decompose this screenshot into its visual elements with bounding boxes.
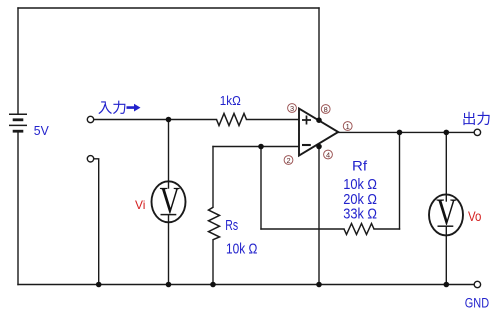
svg-text:1: 1 bbox=[346, 122, 350, 131]
pin label 2 bbox=[284, 156, 293, 165]
pin label 1 bbox=[343, 122, 352, 131]
wire top rail bbox=[18, 7, 319, 9]
terminal input 2 bbox=[87, 156, 93, 162]
wire feedback up to output bbox=[399, 132, 401, 229]
junction dot minus feedback node bbox=[258, 144, 264, 150]
junction dot pin 4 bbox=[316, 144, 322, 150]
pin label 3 bbox=[288, 104, 297, 113]
voltmeter Vo circle bbox=[429, 194, 463, 235]
wire minus node down to Rs bbox=[212, 147, 214, 208]
svg-text:3: 3 bbox=[290, 104, 294, 113]
svg-text:8: 8 bbox=[324, 105, 328, 114]
junction dot rail input2 bbox=[96, 282, 102, 288]
wire battery bottom lead bbox=[17, 132, 19, 285]
svg-text:2: 2 bbox=[286, 156, 290, 165]
pin label 8 bbox=[321, 105, 330, 114]
junction dot output-Vo bbox=[444, 130, 450, 136]
voltmeter Vo V glyph bbox=[437, 199, 457, 225]
junction dot output-Rf bbox=[397, 130, 403, 136]
junction dot rail Rs bbox=[210, 282, 216, 288]
svg-text:Vo: Vo bbox=[468, 209, 481, 224]
battery V1 5V plates bbox=[9, 114, 27, 131]
wire Vo branch upper bbox=[445, 132, 447, 201]
junction dot rail pin4 bbox=[316, 282, 322, 288]
wire 1k resistor to op-amp plus input bbox=[247, 119, 299, 121]
op-amp plus input symbol bbox=[302, 116, 311, 125]
wire Rf to right corner bbox=[374, 228, 400, 230]
wire output bbox=[339, 131, 475, 133]
wire feedback node down bbox=[260, 147, 262, 230]
wire input2 stub bbox=[94, 159, 99, 285]
svg-text:GND: GND bbox=[465, 295, 490, 310]
wire positive supply to pin 8 bbox=[318, 8, 320, 120]
wire pin 4 to ground rail bbox=[318, 147, 320, 285]
wire Vi branch lower bbox=[168, 215, 170, 284]
terminal output bbox=[474, 129, 480, 135]
label input arrow bbox=[127, 104, 141, 112]
wire battery top lead bbox=[17, 8, 19, 114]
wire feedback horizontal to Rf bbox=[261, 228, 344, 230]
voltmeter Vi underline bbox=[161, 214, 177, 216]
junction dot rail Vo bbox=[444, 282, 450, 288]
wire minus input horizontal bbox=[213, 146, 299, 148]
junction dot pin 8 bbox=[316, 117, 322, 123]
label shutsuryoku (output) kanji bbox=[463, 112, 489, 125]
junction dot plus input node bbox=[166, 117, 172, 123]
op-amp minus input symbol bbox=[302, 144, 311, 146]
svg-text:Rf: Rf bbox=[352, 158, 367, 174]
terminal input 1 bbox=[87, 116, 93, 122]
resistor Rf horizontal bbox=[344, 224, 374, 235]
svg-text:Vi: Vi bbox=[135, 198, 145, 212]
label nyuuryoku (input) kanji bbox=[98, 101, 140, 114]
pin label 4 bbox=[324, 150, 333, 159]
wire bottom ground rail bbox=[18, 284, 474, 286]
wire Vo branch lower bbox=[445, 227, 447, 285]
svg-text:33k Ω: 33k Ω bbox=[343, 206, 377, 223]
wire Rs bottom to ground rail bbox=[212, 240, 214, 285]
voltmeter Vi V glyph bbox=[160, 188, 180, 214]
resistor R1 1kohm bbox=[217, 114, 247, 126]
junction dot rail Vi bbox=[166, 282, 172, 288]
terminal GND bbox=[474, 281, 480, 287]
svg-text:10k Ω: 10k Ω bbox=[226, 240, 257, 257]
svg-text:4: 4 bbox=[326, 150, 330, 159]
resistor Rs 10kohm vertical bbox=[209, 207, 220, 239]
wire Vi branch upper bbox=[168, 120, 170, 189]
op-amp U1 triangle bbox=[299, 109, 338, 156]
svg-text:5V: 5V bbox=[34, 123, 49, 138]
voltmeter Vi circle bbox=[152, 181, 186, 222]
svg-text:1kΩ: 1kΩ bbox=[220, 94, 241, 108]
svg-text:Rs: Rs bbox=[225, 217, 238, 234]
voltmeter Vo underline bbox=[438, 225, 454, 227]
wire input to 1k resistor bbox=[94, 119, 217, 121]
